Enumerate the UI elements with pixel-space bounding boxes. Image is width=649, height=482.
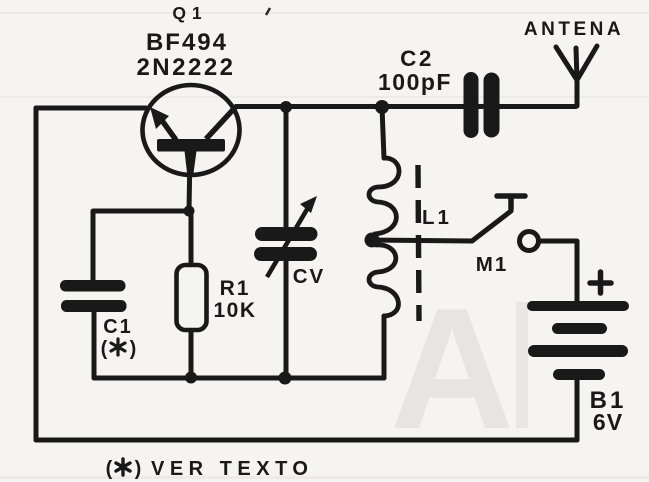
svg-text:A: A	[390, 273, 514, 465]
wire CV bottom lead	[284, 259, 289, 378]
stray mark	[266, 8, 270, 15]
svg-text:100pF: 100pF	[378, 69, 452, 95]
wire M1 terminal to battery	[539, 241, 577, 302]
node: collector/C2/L1 junction	[375, 100, 389, 114]
svg-text:10K: 10K	[213, 299, 256, 322]
svg-text:ANTENA: ANTENA	[524, 19, 624, 40]
wire CV top lead	[284, 107, 289, 230]
variable capacitor CV	[254, 196, 318, 277]
wire antenna lead	[575, 80, 580, 106]
watermark partial letter	[516, 302, 528, 428]
resistor R1	[177, 265, 207, 330]
switch M1 terminal	[520, 232, 539, 251]
wire mid rail	[94, 376, 384, 381]
wire base lead down	[189, 152, 190, 211]
battery B1	[527, 301, 629, 380]
svg-text:M1: M1	[476, 253, 508, 276]
wire R1 top lead	[189, 211, 194, 265]
inductor L1	[369, 158, 399, 316]
wire L1 tap to M1	[372, 240, 472, 241]
switch M1 lever	[472, 211, 511, 241]
svg-text:CV: CV	[293, 265, 325, 288]
svg-text:C1: C1	[103, 316, 133, 338]
svg-text:C2: C2	[400, 46, 434, 71]
svg-text:6V: 6V	[593, 409, 623, 435]
capacitor C1	[60, 280, 127, 312]
wire R1 bottom lead	[189, 330, 194, 378]
wire L1 top lead	[382, 107, 384, 158]
wire C1 bottom lead	[92, 312, 97, 378]
svg-text:): )	[135, 458, 142, 480]
label VER TEXTO note	[106, 458, 314, 480]
node: base junction	[184, 206, 195, 217]
svg-text:(: (	[106, 458, 113, 480]
label C1 asterisk note	[101, 338, 137, 360]
svg-text:2N2222: 2N2222	[136, 54, 235, 81]
svg-text:VER TEXTO: VER TEXTO	[151, 458, 314, 480]
wire L1 bottom lead	[382, 316, 387, 378]
wire left vertical	[34, 108, 39, 440]
capacitor C2	[464, 72, 500, 138]
node: CV bottom junction	[279, 372, 292, 385]
node: CV top junction	[280, 101, 292, 113]
node: R1 bottom junction	[185, 372, 197, 384]
wire top rail right (collector to antenna)	[236, 104, 576, 109]
antenna	[556, 46, 597, 80]
svg-text:R1: R1	[220, 277, 251, 300]
wire battery bottom lead	[575, 380, 580, 440]
L1 core dashed line	[418, 165, 419, 321]
switch M1 fixed contact	[497, 196, 525, 209]
node: L1 tap	[365, 233, 380, 248]
svg-text:Q1: Q1	[172, 3, 207, 23]
wire bottom rail	[36, 438, 577, 443]
svg-text:BF494: BF494	[146, 29, 228, 56]
svg-text:(: (	[101, 338, 108, 360]
svg-text:L1: L1	[422, 206, 452, 229]
battery plus sign	[590, 272, 611, 293]
svg-text:): )	[130, 338, 137, 360]
wire top rail left (emitter side)	[36, 106, 146, 111]
transistor Q1	[143, 85, 240, 177]
wire base to C1 top	[93, 211, 189, 280]
